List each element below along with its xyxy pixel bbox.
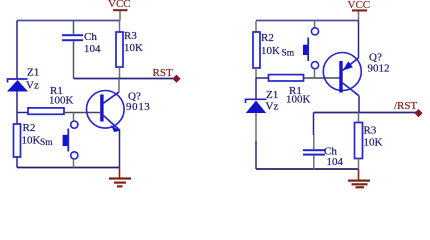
transistor Q1 9013 NPN [87,79,151,168]
svg-text:Ch: Ch [84,31,97,43]
wire top rail left circuit [17,20,120,22]
wire /RST net horizontal [314,112,417,114]
svg-text:Sm: Sm [40,138,53,148]
svg-text:10K: 10K [261,45,280,57]
resistor R2 (right) [253,32,280,68]
wire right circuit left rail top / R2 top lead [255,21,257,32]
wire left rail zener to R1 junction [16,92,18,113]
wire rail junction to zener (right) [255,78,257,99]
wire junction to R1 left lead [17,112,28,114]
wire R1 to base of Q2 [304,77,340,79]
wire RST net horizontal [74,78,175,80]
svg-text:10K: 10K [364,137,383,149]
wire left rail junction to R2 [16,113,18,125]
ground (left) [109,168,131,187]
svg-text:104: 104 [327,156,344,168]
resistor R1 (right) [269,75,311,106]
svg-text:9012: 9012 [368,63,390,75]
svg-text:100K: 100K [49,95,74,107]
svg-text:/RST: /RST [394,100,418,112]
svg-text:Sm: Sm [282,49,295,59]
ground (right) [348,169,370,187]
wire bottom rail right circuit [256,168,359,170]
svg-text:R2: R2 [23,122,36,134]
transistor Q2 9012 PNP [323,21,389,113]
power VCC (left) [108,0,131,21]
resistor R2 (left) [14,122,41,157]
wire /RST corner down to capacitor [313,113,315,136]
switch Sm (right) [282,21,319,79]
pin zener bottom lead (right) [255,113,257,141]
svg-text:RST: RST [153,67,173,79]
svg-text:Vz: Vz [266,101,279,113]
zener Z1 (right) [246,89,279,113]
svg-text:Z1: Z1 [27,67,39,79]
svg-text:VCC: VCC [108,0,131,10]
resistor R1 (left) [28,85,74,114]
node /RST [394,100,423,117]
svg-text:104: 104 [84,43,101,55]
wire bottom rail left circuit [17,167,120,169]
resistor R3 (right) [355,113,383,170]
wire rail to bottom (right) [255,141,257,169]
node RST [153,67,181,83]
svg-text:Vz: Vz [26,80,39,92]
wire left rail R2 to bottom [16,157,18,168]
svg-text:10K: 10K [124,42,143,54]
pin R2 bottom lead [255,68,257,78]
wire junction to R1 (right) [256,77,269,79]
capacitor Ch (right) [303,135,344,169]
power VCC (right) [348,0,371,20]
wire R1 to base of Q1 [64,112,100,114]
svg-text:R2: R2 [261,32,274,44]
switch Sm (left) [40,113,78,168]
svg-text:10K: 10K [22,135,41,147]
zener Z1 (left) [7,67,39,92]
svg-text:100K: 100K [286,94,311,106]
capacitor Ch (left) [62,21,101,79]
wire top rail right circuit [256,20,359,22]
svg-text:R3: R3 [124,30,137,42]
svg-text:9013: 9013 [126,101,150,113]
wire left rail upper segment [16,21,18,79]
svg-text:Z1: Z1 [266,89,278,101]
resistor R3 (left) [116,21,143,79]
svg-text:R3: R3 [364,125,377,137]
